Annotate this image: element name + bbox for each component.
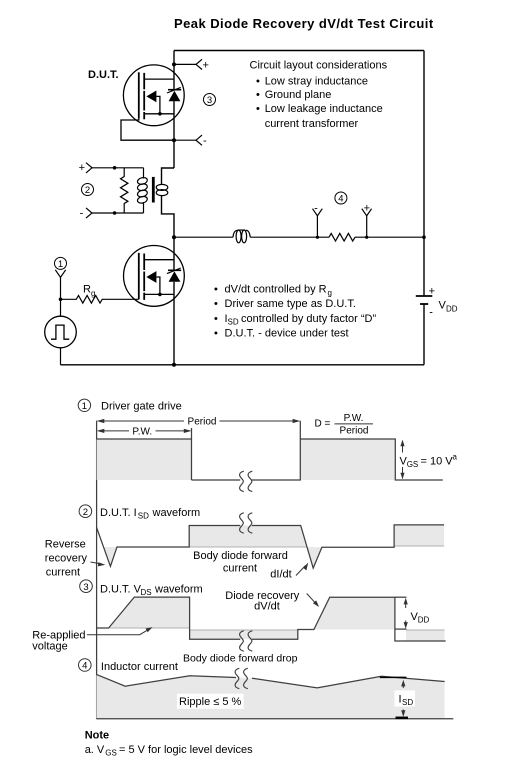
wire right rail lower [423, 304, 425, 365]
svg-text:GS: GS [407, 460, 419, 469]
svg-text:Inductor current: Inductor current [101, 661, 178, 673]
svg-text:R: R [83, 284, 91, 296]
break squiggle waveform 2 [240, 513, 253, 533]
wire CT bottom [92, 212, 144, 214]
svg-text:-: - [314, 203, 318, 215]
dimension VGS = 10 V [400, 440, 458, 480]
probe - (CT) [80, 208, 92, 220]
peak tick waveform 4 [380, 676, 407, 678]
waveform 3 trace [97, 597, 446, 641]
svg-text:2: 2 [83, 507, 88, 518]
arrow reverse recovery [91, 562, 102, 564]
wire middle left [174, 236, 233, 238]
svg-text:Ripple ≤ 5 %: Ripple ≤ 5 % [179, 696, 242, 708]
svg-text:Low leakage inductance: Low leakage inductance [265, 103, 383, 115]
arrow diode recovery [307, 594, 317, 605]
svg-text:•: • [214, 298, 218, 310]
svg-text:g: g [328, 288, 332, 297]
wire middle right [355, 236, 424, 238]
svg-text:D.U.T. V: D.U.T. V [100, 583, 142, 595]
svg-text:•: • [256, 75, 260, 87]
node source of D.U.T. (VDS - probe) [172, 135, 207, 147]
waveform 2 label [79, 505, 200, 521]
formula D = P.W. / Period [315, 413, 374, 437]
svg-text:3: 3 [83, 582, 88, 593]
wire main rail (junction to driver drain) [173, 237, 175, 270]
svg-text:Note: Note [85, 730, 109, 742]
svg-text:dV/dt: dV/dt [254, 600, 280, 612]
svg-text:current: current [223, 563, 257, 575]
waveform 4 label [79, 659, 178, 673]
svg-text:waveform: waveform [154, 583, 203, 595]
waveform 2 trace [97, 525, 445, 568]
transistor D.U.T. [121, 65, 184, 140]
svg-text:•: • [214, 313, 218, 325]
svg-text:Driver same type as D.U.T.: Driver same type as D.U.T. [225, 298, 356, 310]
svg-text:1: 1 [58, 259, 63, 270]
break squiggle waveform 1 [240, 471, 253, 491]
svg-text:•: • [256, 103, 260, 115]
node 3 circled [204, 94, 216, 107]
svg-text:+: + [79, 162, 85, 174]
svg-text:•: • [214, 283, 218, 295]
transformer T1 primary winding [137, 168, 148, 213]
wire right rail upper [423, 51, 425, 297]
svg-text:3: 3 [207, 95, 212, 106]
svg-text:current transformer: current transformer [265, 118, 359, 130]
waveform 2 zero line gray [189, 546, 307, 548]
waveform 2 fills [104, 547, 118, 566]
svg-text:current: current [46, 566, 80, 578]
inductor L1 [233, 230, 250, 243]
break squiggle waveform 4 [235, 668, 248, 688]
waveform 4 baseline [96, 718, 453, 720]
node 4 circled [335, 192, 347, 205]
svg-text:1: 1 [82, 401, 87, 412]
label body diode forward current [193, 550, 288, 574]
svg-text:Driver gate drive: Driver gate drive [101, 400, 182, 412]
svg-text:Low stray inductance: Low stray inductance [265, 75, 368, 87]
svg-text:a: a [453, 453, 458, 462]
junction dot mid rail [172, 235, 176, 239]
wire main rail (D.U.T. source to transformer) [173, 101, 175, 168]
svg-text:-: - [80, 208, 84, 220]
svg-text:+: + [203, 59, 209, 71]
probe arrow (node 1) [55, 270, 65, 301]
waveform 3 fills [109, 597, 190, 628]
wire middle center [250, 236, 329, 238]
svg-text:P.W.: P.W. [344, 413, 364, 424]
probe + (node 4) [362, 203, 372, 239]
svg-text:D =: D = [315, 418, 331, 429]
svg-text:= 5 V for logic level devices: = 5 V for logic level devices [119, 744, 253, 756]
transformer T1 core [152, 177, 155, 203]
wire CT top [92, 167, 144, 169]
svg-text:= 10 V: = 10 V [421, 456, 454, 468]
arrow re-applied [87, 629, 149, 635]
resistor load [329, 233, 355, 241]
waveform 1 trace [97, 421, 443, 480]
waveform 4 trace [96, 674, 444, 688]
svg-text:waveform: waveform [152, 507, 201, 519]
svg-text:Ground plane: Ground plane [265, 89, 332, 101]
label ripple [177, 694, 244, 709]
svg-text:a. V: a. V [85, 744, 105, 756]
svg-text:Peak Diode Recovery dV/dt Test: Peak Diode Recovery dV/dt Test Circuit [174, 16, 434, 31]
node drain of D.U.T. (VDS + probe) [172, 59, 209, 71]
label re-applied voltage [32, 630, 85, 653]
svg-text:Period: Period [340, 426, 369, 437]
svg-text:GS: GS [105, 749, 117, 758]
transistor driver [123, 246, 184, 307]
svg-text:•: • [256, 89, 260, 101]
svg-text:4: 4 [82, 661, 87, 672]
svg-text:dV/dt controlled by R: dV/dt controlled by R [225, 283, 327, 295]
waveform 1 gate pulse 2 fill [300, 439, 395, 480]
junction dots CT [113, 166, 117, 170]
dimension VDD [395, 597, 430, 629]
svg-text:+: + [364, 203, 370, 215]
svg-text:D.U.T. - device under test: D.U.T. - device under test [225, 328, 349, 340]
text circuit layout considerations [250, 60, 388, 130]
resistor Rg [61, 296, 139, 304]
svg-text:D.U.T.: D.U.T. [88, 69, 119, 81]
svg-text:-: - [429, 307, 433, 319]
waveform 1 gate pulse 1 fill [97, 439, 192, 480]
battery VDD [416, 286, 458, 319]
waveform 3 ref lines gray [109, 627, 190, 629]
svg-text:voltage: voltage [32, 641, 67, 653]
probe + (CT) [79, 162, 92, 174]
pulse generator [45, 299, 77, 365]
svg-text:DS: DS [141, 588, 152, 597]
time axis line [96, 421, 98, 719]
svg-text:D.U.T. I: D.U.T. I [100, 507, 137, 519]
waveform 1 label [78, 399, 182, 412]
waveform 3 label [80, 580, 203, 597]
junction dot right rail [422, 235, 426, 239]
svg-text:+: + [429, 286, 435, 298]
svg-text:Period: Period [188, 417, 217, 428]
svg-text:g: g [91, 289, 95, 298]
label reverse recovery current [45, 538, 88, 578]
svg-text:DD: DD [418, 616, 430, 625]
text circuit notes [214, 283, 376, 339]
resistor burden (CT) [121, 168, 128, 213]
wire main rail top (drain of D.U.T.) [173, 51, 175, 90]
dimension Period [104, 420, 294, 422]
svg-text:P.W.: P.W. [132, 427, 152, 438]
probe - (node 4) [313, 203, 323, 239]
svg-text:dI/dt: dI/dt [270, 568, 291, 580]
svg-text:SD: SD [228, 318, 239, 327]
svg-text:controlled by duty factor “D”: controlled by duty factor “D” [241, 313, 376, 325]
dimension ISD [395, 680, 416, 718]
svg-text:Body diode forward: Body diode forward [193, 550, 288, 562]
svg-text:4: 4 [338, 194, 343, 205]
svg-text:-: - [203, 135, 207, 147]
label diode recovery dV/dt [225, 590, 299, 612]
svg-text:•: • [214, 328, 218, 340]
dimension P.W. [104, 430, 185, 432]
wire top rail [174, 50, 424, 52]
transformer T1 secondary winding [156, 184, 168, 195]
svg-text:2: 2 [85, 185, 90, 196]
node 1 circled [55, 257, 67, 270]
wire bottom rail [61, 364, 425, 366]
svg-text:Body diode forward drop: Body diode forward drop [183, 653, 298, 665]
wire main rail (driver source to bottom rail) [173, 282, 175, 365]
node 2 circled [82, 184, 94, 197]
svg-text:recovery: recovery [45, 552, 88, 564]
transformer T1 secondary jog [162, 168, 175, 237]
waveform 4 fill [96, 674, 444, 718]
svg-text:SD: SD [402, 698, 413, 707]
svg-text:DD: DD [446, 304, 458, 313]
svg-text:SD: SD [138, 512, 149, 521]
svg-text:Reverse: Reverse [45, 538, 86, 550]
break squiggle waveform 3 [240, 631, 253, 651]
svg-text:Circuit layout considerations: Circuit layout considerations [250, 60, 388, 72]
